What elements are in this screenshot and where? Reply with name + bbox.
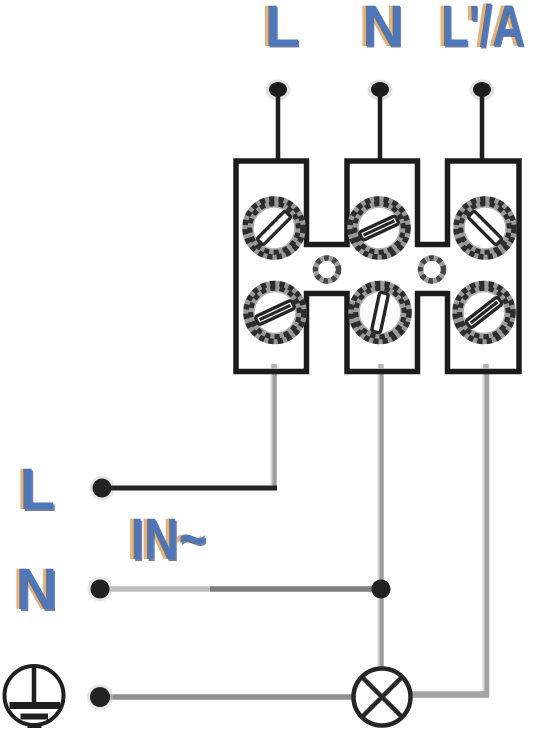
terminal block X1 outline [236,161,519,372]
svg-text:N: N [362,0,404,59]
node dot terminal 1 top [266,80,291,101]
wire from terminal 2 bottom (grey, down to lamp) [378,370,384,669]
wire from terminal 1 bottom (grey, down to L row) [271,370,277,490]
svg-text:L: L [265,0,300,59]
wire terminal 2 top [378,92,383,161]
label L (left, line input) [17,457,57,524]
screw 1 (terminal 1 upper) [245,199,303,257]
mounting hole 2 (between terminal 2 and 3) [421,258,444,281]
wire stub terminal 2 (inside tower) [378,364,384,369]
junction dot N row at terminal 2 wire [372,580,391,599]
node dot N row left [88,577,113,602]
wire N row (light grey segment) [100,586,210,592]
earth symbol PE [5,666,64,726]
wire N row (darker grey segment) [210,586,383,592]
label N (top, terminal 2) [359,0,405,61]
node dot earth row [87,684,113,710]
label L (top, terminal 1) [261,0,301,61]
lamp E1 (circle with X) [354,669,411,726]
node dot terminal 3 top [470,80,495,101]
node dot L row [90,476,115,501]
label L'/A (top, terminal 3) [438,0,527,61]
screw 3 (terminal 3 upper) [456,199,514,257]
node dot terminal 2 top [368,80,393,101]
wire earth row (grey to lamp) [100,694,353,700]
screw 4 (terminal 1 lower) [246,284,304,342]
svg-text:N: N [16,557,58,622]
screw 6 (terminal 3 lower) [455,284,513,342]
svg-text:L: L [20,457,55,522]
label N (left, neutral input) [13,557,59,624]
wire stub terminal 1 (inside tower) [271,364,277,369]
label IN~ [127,507,208,574]
wire L row (dark horizontal) [102,486,277,491]
wire stub terminal 3 (inside tower) [483,364,489,369]
wire terminal 3 top [480,92,485,161]
wire from terminal 3 bottom (grey, down and left to lamp) [411,370,486,695]
svg-text:IN~: IN~ [131,507,207,572]
screw 2 (terminal 2 upper) [350,199,408,257]
svg-text:L'/A: L'/A [441,0,525,59]
mounting hole 1 (between terminal 1 and 2) [316,258,339,281]
wire terminal 1 top [276,92,281,161]
screw 5 (terminal 2 lower) [351,284,409,342]
